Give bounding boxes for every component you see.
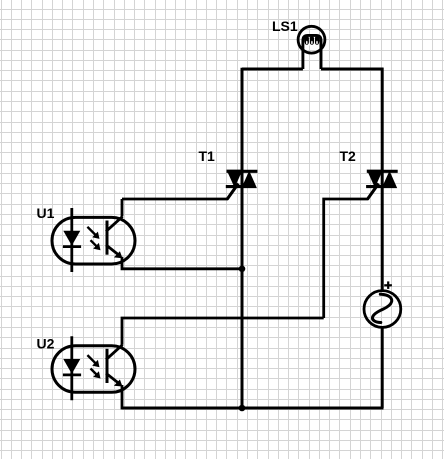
wire top bus left: [242, 68, 303, 71]
plus polarity mark: [384, 284, 392, 286]
optocoupler U2: [52, 336, 135, 400]
AC source circle: [364, 291, 401, 328]
junction node A: [239, 266, 246, 273]
wire T1 branch vertical: [241, 68, 244, 408]
triac T2: [366, 170, 398, 199]
wire U2 emitter: [122, 385, 382, 408]
AC source V1: [364, 281, 401, 327]
wire U2 collector: [122, 318, 324, 345]
wire top bus right: [321, 68, 384, 71]
wire T2 upper vertical: [381, 68, 384, 291]
lamp leads: [303, 35, 321, 69]
lamp LS1: [298, 26, 325, 69]
wire U1 emitter: [122, 257, 242, 269]
svg-text:T1: T1: [199, 148, 216, 164]
junction node B: [239, 405, 246, 412]
optocoupler U1: [52, 208, 135, 272]
svg-text:T2: T2: [340, 148, 357, 164]
wire U1 collector: [121, 199, 124, 216]
sine wave: [372, 294, 391, 322]
triac T1: [226, 170, 258, 199]
svg-text:U1: U1: [37, 205, 55, 221]
svg-text:LS1: LS1: [272, 18, 298, 34]
wire T2 gate: [324, 184, 379, 318]
lamp envelope: [298, 26, 325, 53]
svg-text:U2: U2: [37, 335, 55, 351]
wire bottom bus: [122, 407, 384, 410]
wire T1 gate: [122, 184, 238, 199]
filament coil: [304, 36, 309, 45]
wire AC to bottom vertical: [381, 327, 384, 408]
